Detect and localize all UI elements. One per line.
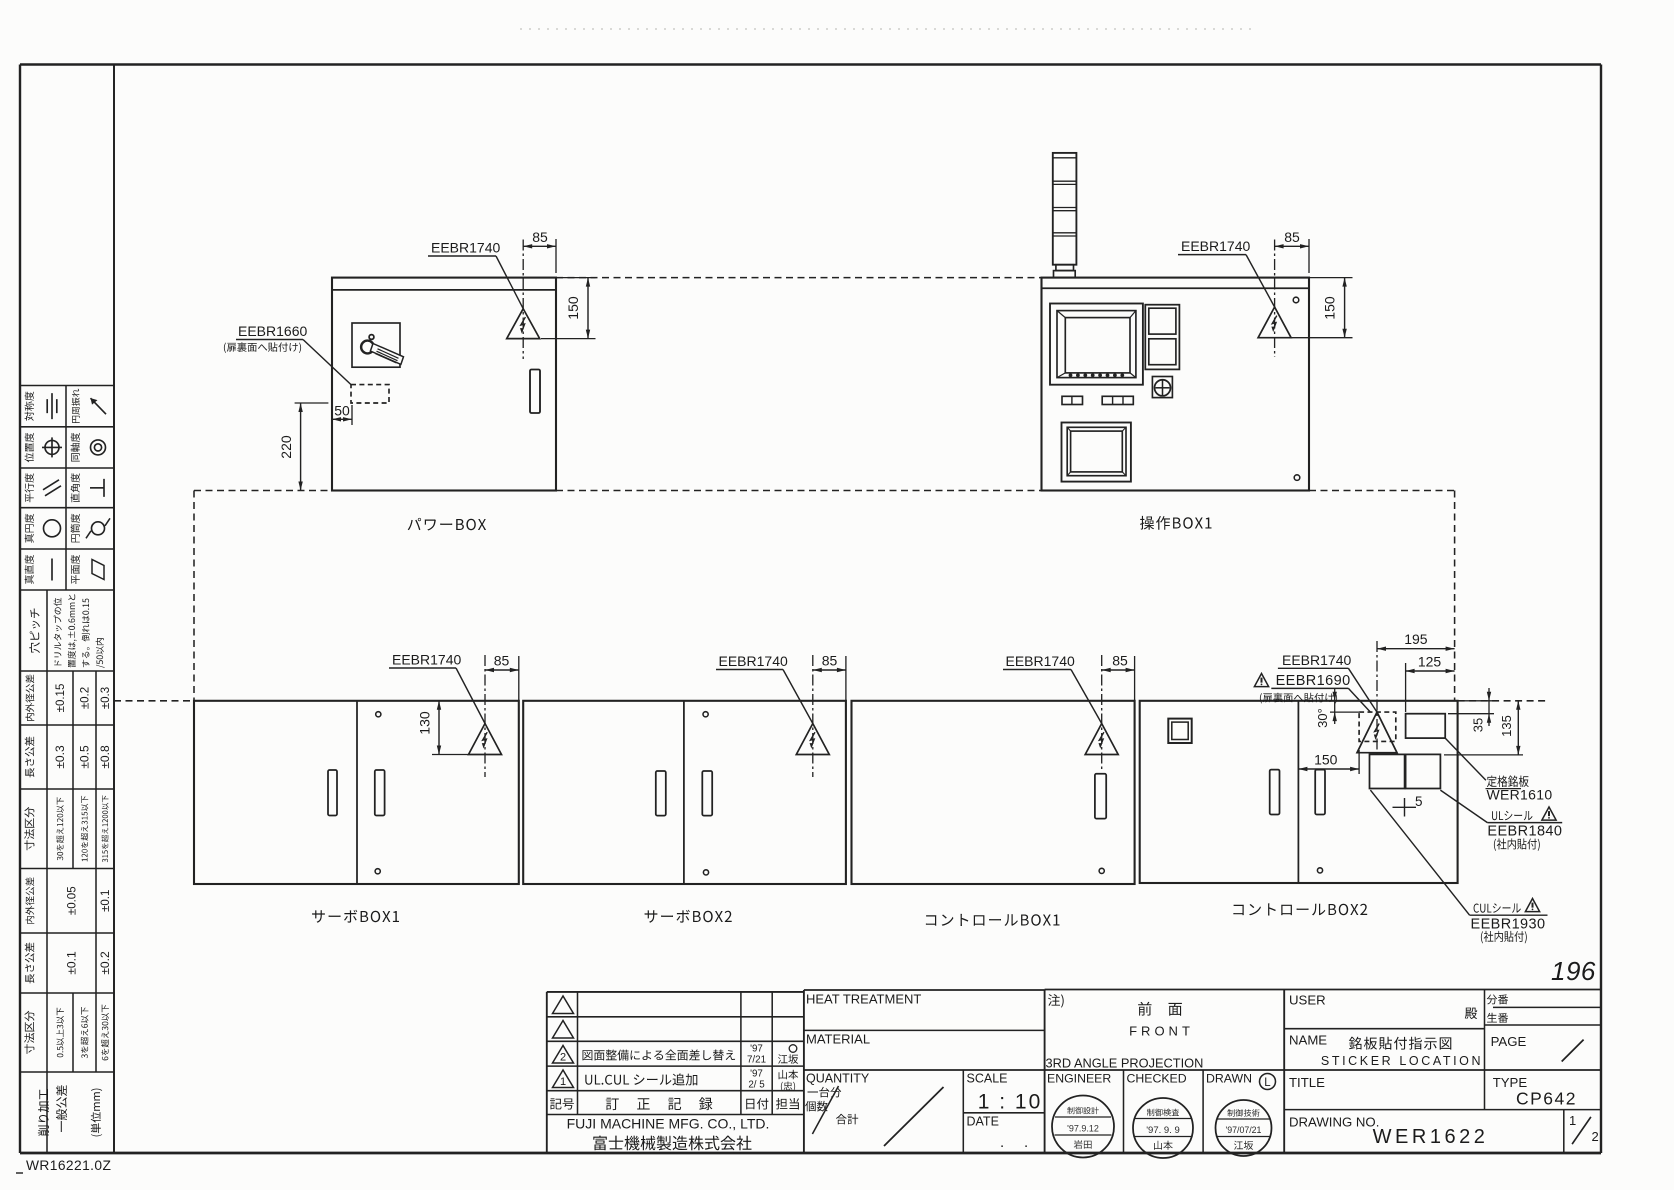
svg-text:'97. 9. 9: '97. 9. 9 [1146, 1125, 1180, 1136]
machine outline dashed mid row [194, 490, 332, 492]
svg-text:3RD ANGLE PROJECTION: 3RD ANGLE PROJECTION [1046, 1056, 1204, 1071]
svg-text:STICKER LOCATION: STICKER LOCATION [1321, 1054, 1483, 1068]
dimension 150 操作BOX1 [1292, 278, 1353, 338]
svg-text:EEBR1740: EEBR1740 [392, 652, 461, 668]
faint scan artifact dotted line top [520, 28, 1256, 30]
sidebar symbol cell 直角度 [71, 473, 104, 502]
dimension 85 パワーBOX [523, 229, 556, 273]
svg-text:DATE: DATE [967, 1115, 999, 1129]
svg-text:±0.15: ±0.15 [55, 684, 67, 713]
label EEBR1740 コントロールBOX2 [1278, 652, 1377, 712]
sidebar table lower: 長さ公差 band [25, 943, 35, 984]
sidebar table lower: 寸法区分 band [24, 1011, 34, 1054]
label 操作BOX1 [1140, 516, 1211, 530]
DATE cell [967, 1115, 1029, 1152]
monitor display [1050, 304, 1143, 385]
tolerance sidebar grid [20, 386, 114, 1154]
sidebar 穴ピッチ label [29, 609, 40, 654]
svg-text:WR16221.0Z: WR16221.0Z [26, 1158, 111, 1173]
分番 生番 cells [1487, 994, 1508, 1023]
svg-text:EEBR1740: EEBR1740 [719, 653, 788, 669]
サーボBOX2 screw holes [703, 712, 708, 717]
svg-text:85: 85 [1112, 653, 1128, 669]
svg-text:TITLE: TITLE [1289, 1075, 1325, 1090]
svg-text:L: L [1264, 1077, 1271, 1089]
label EEBR1740 パワーBOX [428, 240, 523, 309]
dimension 85 操作BOX1 [1275, 229, 1309, 273]
svg-text:±0.1: ±0.1 [100, 890, 112, 912]
dimension 195 [1377, 631, 1455, 651]
dimension 85 サーボBOX1 [485, 653, 519, 701]
svg-text:30°: 30° [1315, 708, 1330, 728]
TYPE cell [1493, 1075, 1577, 1109]
svg-text:NAME: NAME [1289, 1033, 1327, 1048]
svg-text:±0.3: ±0.3 [100, 687, 112, 709]
パワーBOX door slot [530, 370, 540, 414]
title block center dividers [804, 989, 1602, 1153]
sidebar symbol cell 円筒度 [71, 514, 110, 543]
sidebar symbol cell 平行度 [25, 473, 61, 502]
svg-text:7/21: 7/21 [747, 1055, 766, 1066]
button strips [1062, 396, 1133, 404]
machine outline dashed top segment between boxes [556, 277, 1042, 279]
dimension 35 [1448, 688, 1494, 732]
dimension 5 [1393, 794, 1423, 817]
QUANTITY cell [805, 1072, 943, 1147]
svg-text:.: . [1024, 1134, 1028, 1151]
svg-text:.: . [1000, 1134, 1004, 1151]
svg-text:150: 150 [565, 296, 581, 320]
warning triangle EEBR1740 on サーボBOX2 [812, 655, 814, 777]
svg-text:1 : 10: 1 : 10 [978, 1091, 1043, 1114]
box パワーBOX outline [332, 278, 556, 491]
svg-text:'97.9.12: '97.9.12 [1067, 1124, 1099, 1134]
svg-text:5: 5 [1415, 794, 1423, 809]
revision table grid [547, 992, 804, 1153]
page fraction 1/2 [1569, 1113, 1599, 1144]
svg-text:195: 195 [1404, 631, 1428, 647]
svg-text:WER1622: WER1622 [1373, 1126, 1489, 1148]
dimension 85 コントロールBOX1 [1102, 653, 1135, 701]
keyswitch [1152, 377, 1172, 398]
svg-text:PAGE: PAGE [1491, 1034, 1527, 1049]
svg-text:125: 125 [1418, 654, 1442, 670]
svg-text:EEBR1930: EEBR1930 [1471, 917, 1546, 933]
warning triangle EEBR1740 on サーボBOX1 [484, 655, 486, 777]
svg-text:EEBR1690: EEBR1690 [1276, 673, 1351, 689]
ENGINEER stamp cell [1047, 1072, 1114, 1158]
PAGE cell [1491, 1034, 1584, 1062]
svg-text:EEBR1740: EEBR1740 [1282, 652, 1351, 668]
dimension 85 サーボBOX2 [813, 653, 846, 701]
svg-text:QUANTITY: QUANTITY [806, 1072, 870, 1086]
label EEBR1740 操作BOX1 [1178, 238, 1275, 307]
company name [567, 1116, 770, 1151]
label EEBR1740 コントロールBOX1 [1003, 653, 1102, 724]
dimension 30 [1315, 689, 1359, 728]
sidebar table upper: 寸法区分 band [24, 807, 34, 850]
machine outline dashed bottom level [114, 700, 194, 702]
コントロールBOX2 pushbutton square [1168, 719, 1191, 743]
DRAWN stamp cell [1206, 1072, 1276, 1157]
svg-text:±0.05: ±0.05 [67, 886, 79, 915]
SCALE cell [967, 1072, 1043, 1114]
サーボBOX2 door slots [656, 771, 666, 816]
svg-text:'97/07/21: '97/07/21 [1226, 1125, 1262, 1135]
svg-text:±0.2: ±0.2 [80, 687, 92, 709]
svg-text:±0.3: ±0.3 [53, 745, 67, 769]
svg-text:EEBR1740: EEBR1740 [431, 240, 500, 256]
サーボBOX2 door divider [683, 701, 685, 884]
svg-text:35: 35 [1471, 718, 1486, 732]
box サーボBOX1 outline [194, 701, 519, 884]
svg-text:WER1610: WER1610 [1487, 787, 1553, 803]
dimension 220 [278, 403, 328, 491]
sticker EEBR1660 dashed rect [351, 385, 389, 403]
breaker handle square [352, 323, 400, 367]
svg-text:85: 85 [532, 229, 548, 245]
breaker handle lever [361, 335, 403, 365]
box 操作BOX1 outline [1042, 278, 1310, 491]
label 定格銘板 WER1610 [1445, 738, 1552, 802]
sidebar 削り加工一般公差 cell [38, 1085, 102, 1136]
操作BOX1 screw holes [1293, 297, 1299, 303]
コントロールBOX2 door slots [1270, 770, 1280, 815]
sidebar table lower: 内外径公差 band [25, 877, 34, 924]
操作BOX1 roof seam [1042, 287, 1310, 289]
svg-text:EEBR1740: EEBR1740 [1181, 238, 1250, 254]
svg-text:USER: USER [1289, 993, 1326, 1008]
signal tower [1053, 153, 1077, 278]
パワーBOX roof seam [332, 289, 556, 291]
sidebar table upper: 内外径公差 band [25, 675, 34, 722]
sidebar symbol cell 対称度 [25, 392, 57, 421]
machine outline dashed verticals [193, 491, 195, 701]
svg-text:1: 1 [1569, 1113, 1576, 1128]
コントロールBOX2 door divider [1297, 701, 1299, 883]
lower display [1062, 423, 1131, 482]
svg-text:85: 85 [494, 653, 510, 669]
warning triangle EEBR1740 on 操作BOX1 [1274, 240, 1276, 358]
sidebar symbol cell 真直度 [25, 555, 52, 584]
revision row 2 [553, 1044, 799, 1066]
svg-text:DRAWN: DRAWN [1206, 1072, 1252, 1086]
UL sticker rect [1370, 754, 1405, 788]
box コントロールBOX2 outline [1140, 701, 1458, 883]
svg-text:EEBR1740: EEBR1740 [1006, 653, 1075, 669]
svg-text:DRAWING NO.: DRAWING NO. [1289, 1115, 1379, 1130]
rating nameplate WER1610 rect [1406, 714, 1446, 738]
sidebar symbol cell 円周振れ [72, 389, 106, 423]
コントロールBOX1 screw hole [1099, 868, 1104, 873]
CHECKED stamp cell [1127, 1072, 1194, 1159]
svg-text:FRONT: FRONT [1129, 1024, 1194, 1039]
label コントロールBOX2 [1233, 903, 1367, 915]
svg-text:2: 2 [1592, 1129, 1599, 1144]
svg-text:EEBR1660: EEBR1660 [238, 323, 307, 339]
dimension 130 サーボBOX1 [417, 701, 442, 755]
label コントロールBOX1 [926, 914, 1060, 926]
box コントロールBOX1 outline [852, 701, 1135, 884]
label サーボBOX1 [312, 910, 399, 923]
svg-text:150: 150 [1322, 296, 1338, 320]
コントロールBOX1 door slot [1095, 774, 1106, 819]
svg-text:1: 1 [560, 1076, 566, 1088]
side buttons [1145, 305, 1179, 370]
sidebar symbol cell 位置度 [25, 433, 62, 462]
svg-text:130: 130 [417, 711, 433, 735]
サーボBOX1 screw holes [376, 712, 381, 717]
svg-text:'97: '97 [750, 1069, 763, 1080]
svg-text:±0.2: ±0.2 [98, 951, 112, 975]
warning triangle EEBR1740 on パワーBOX [522, 240, 524, 360]
revision row 1 [553, 1069, 799, 1092]
svg-text:2: 2 [560, 1052, 566, 1064]
CUL sticker rect [1406, 754, 1441, 788]
label パワーBOX [408, 518, 486, 531]
svg-text:MATERIAL: MATERIAL [806, 1032, 870, 1047]
svg-text:CHECKED: CHECKED [1127, 1072, 1187, 1086]
sidebar table upper: 長さ公差 band [25, 737, 35, 778]
svg-text:2/ 5: 2/ 5 [748, 1080, 765, 1091]
label EEBR1690 with warn triangle [1254, 673, 1370, 712]
box サーボBOX2 outline [523, 701, 846, 884]
warning triangle EEBR1740 on コントロールBOX1 [1101, 655, 1103, 770]
label EEBR1740 サーボBOX2 [716, 653, 813, 724]
svg-text:±0.1: ±0.1 [65, 951, 79, 975]
sidebar symbol cell 同軸度 [71, 433, 106, 462]
sidebar symbol cell 平面度 [71, 555, 104, 584]
svg-text:220: 220 [278, 435, 294, 459]
svg-text:FUJI MACHINE MFG. CO., LTD.: FUJI MACHINE MFG. CO., LTD. [567, 1116, 770, 1132]
svg-text:50: 50 [334, 403, 350, 419]
svg-text:EEBR1840: EEBR1840 [1487, 824, 1562, 840]
svg-text:135: 135 [1499, 715, 1514, 737]
dimension 135 [1444, 701, 1523, 755]
svg-text:'97: '97 [750, 1044, 763, 1055]
sidebar drill-tap note [54, 594, 105, 668]
label CULシール EEBR1930 [1370, 790, 1547, 943]
revision header row [550, 1097, 799, 1110]
svg-text:SCALE: SCALE [967, 1072, 1008, 1086]
label EEBR1660 [224, 323, 351, 385]
projection note cell [1046, 994, 1204, 1070]
USER cell [1289, 993, 1477, 1020]
svg-text:85: 85 [1284, 229, 1300, 245]
svg-text:±0.8: ±0.8 [98, 745, 112, 769]
svg-text:±0.5: ±0.5 [78, 745, 92, 769]
svg-text:CP642: CP642 [1516, 1089, 1577, 1109]
dimension 125 [1406, 654, 1455, 713]
svg-text:ENGINEER: ENGINEER [1047, 1072, 1111, 1086]
warning triangle EEBR1740 on コントロールBOX2 [1376, 641, 1378, 757]
label EEBR1740 サーボBOX1 [389, 652, 485, 724]
sidebar symbol cell 真円度 [25, 514, 61, 543]
revision row blank triangles [553, 996, 574, 1014]
dimension 150 コントロールBOX2 [1298, 750, 1359, 774]
dimension 150 パワーBOX [541, 278, 596, 339]
svg-text:HEAT TREATMENT: HEAT TREATMENT [806, 992, 921, 1007]
サーボBOX1 door divider [356, 701, 358, 884]
サーボBOX1 door slots [328, 770, 337, 816]
svg-text:85: 85 [822, 653, 838, 669]
svg-text:196: 196 [1551, 956, 1596, 986]
コントロールBOX2 screw hole [1317, 868, 1322, 873]
sidebar divider line [113, 65, 115, 1154]
label サーボBOX2 [645, 910, 732, 923]
label ULシール EEBR1840 [1440, 790, 1562, 851]
svg-text:150: 150 [1314, 752, 1338, 768]
DRAWING NO cell [1289, 1115, 1488, 1149]
sticker EEBR1690 dashed rect [1359, 712, 1396, 741]
dimension 50 [332, 403, 352, 426]
NAME cell [1289, 1033, 1483, 1069]
